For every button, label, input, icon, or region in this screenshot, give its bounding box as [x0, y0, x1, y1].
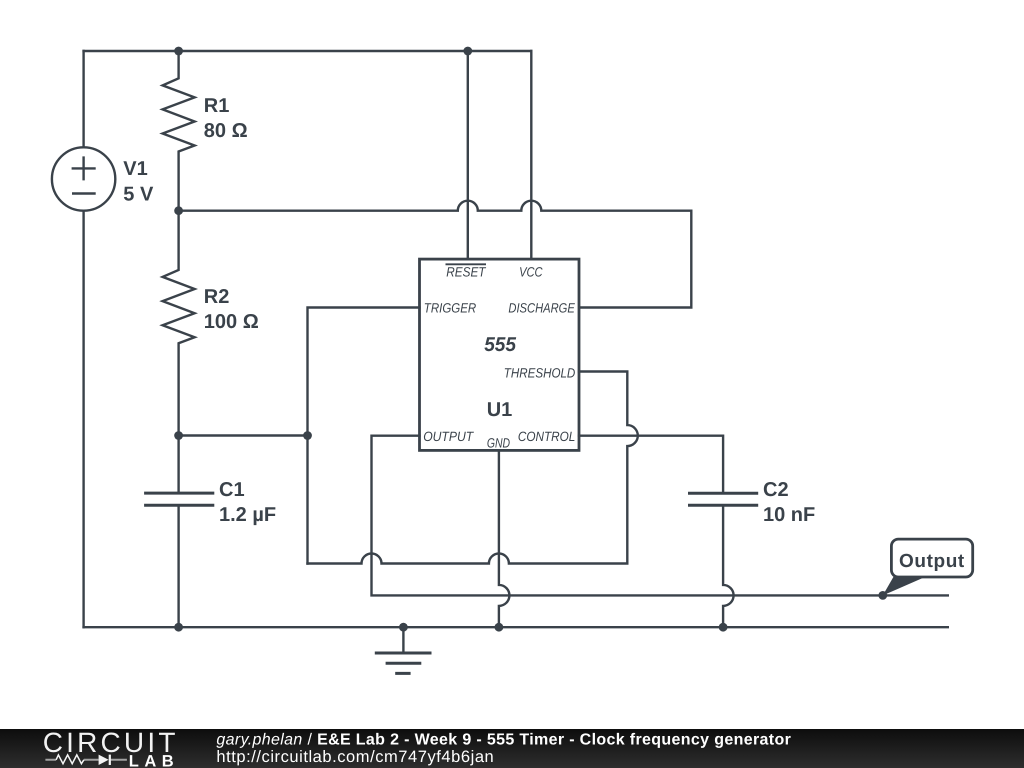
wire control to C2 [579, 436, 723, 494]
junction C2 bottom rail [719, 623, 728, 632]
svg-text:80 Ω: 80 Ω [204, 120, 248, 142]
IC U1 555 box [420, 259, 580, 450]
svg-text:Output: Output [899, 551, 965, 572]
flag Output [883, 539, 973, 595]
pin label DISCHARGE [508, 301, 575, 316]
wire vcc drop [530, 51, 532, 259]
svg-text:10 nF: 10 nF [763, 504, 815, 526]
resistor R1 [163, 51, 195, 211]
label R1 value [204, 95, 248, 142]
svg-text:C2: C2 [763, 479, 789, 501]
svg-text:U1: U1 [487, 399, 513, 421]
label U1 [487, 399, 513, 421]
footer url [216, 748, 494, 766]
voltage source V1 [52, 147, 115, 210]
wire gnd pin [499, 450, 510, 627]
svg-text:CONTROL: CONTROL [518, 429, 575, 444]
label 555 [484, 334, 517, 356]
pin label RESET [446, 264, 488, 279]
junction top rail reset [463, 47, 472, 56]
wire trigger [308, 308, 420, 564]
junction trigger node [303, 431, 312, 440]
svg-text:THRESHOLD: THRESHOLD [504, 366, 576, 381]
wire output [372, 436, 948, 596]
junction ground stem [399, 623, 408, 632]
svg-text:5 V: 5 V [123, 184, 154, 206]
junction top rail R1 [174, 47, 183, 56]
CircuitLab logo [43, 727, 180, 768]
ground [376, 627, 430, 673]
svg-text:100 Ω: 100 Ω [204, 311, 259, 333]
svg-text:R1: R1 [204, 95, 230, 117]
footer title [216, 731, 791, 748]
label V1 value [123, 158, 154, 206]
capacitor C1 [146, 436, 213, 628]
label Output flag text [899, 551, 965, 572]
label R2 value [204, 286, 259, 333]
svg-text:OUTPUT: OUTPUT [423, 429, 475, 444]
wire bottom rail [84, 626, 948, 628]
pin label VCC [519, 264, 543, 279]
wire threshold feedback [308, 372, 638, 564]
svg-text:GND: GND [487, 435, 510, 450]
resistor R2 [163, 211, 195, 436]
junction R2-C1 [174, 431, 183, 440]
pin label OUTPUT [423, 429, 475, 444]
wire top rail [84, 50, 532, 52]
pin label GND [487, 435, 510, 450]
svg-text:R2: R2 [204, 286, 230, 308]
capacitor C2 [690, 493, 757, 627]
svg-text:gary.phelan / E&E Lab 2 - Week: gary.phelan / E&E Lab 2 - Week 9 - 555 T… [216, 731, 791, 748]
pin label TRIGGER [424, 301, 477, 316]
label C1 value [219, 479, 276, 526]
junction output flag [878, 591, 887, 600]
pin label CONTROL [518, 429, 575, 444]
svg-text:RESET: RESET [446, 264, 487, 279]
wire discharge loop [579, 211, 691, 308]
wire reset drop [467, 51, 469, 259]
wire mid rail [179, 201, 692, 211]
svg-text:C1: C1 [219, 479, 245, 501]
svg-text:DISCHARGE: DISCHARGE [508, 301, 575, 316]
svg-text:http://circuitlab.com/cm747yf4: http://circuitlab.com/cm747yf4b6jan [216, 748, 494, 766]
svg-text:555: 555 [484, 334, 517, 356]
svg-text:1.2 µF: 1.2 µF [219, 504, 276, 526]
junction gnd wire bottom rail [495, 623, 504, 632]
footer bar [0, 729, 1024, 768]
wire V1 top lead [82, 51, 84, 147]
pin label THRESHOLD [504, 366, 576, 381]
junction C1 bottom rail [174, 623, 183, 632]
label C2 value [763, 479, 815, 526]
wire V1 bottom lead [82, 211, 84, 628]
svg-text:LAB: LAB [129, 752, 179, 768]
wire R2 to trigger node [179, 434, 308, 436]
svg-text:VCC: VCC [519, 264, 543, 279]
junction mid rail R1-R2 [174, 206, 183, 215]
svg-text:V1: V1 [123, 158, 147, 180]
svg-text:TRIGGER: TRIGGER [424, 301, 477, 316]
